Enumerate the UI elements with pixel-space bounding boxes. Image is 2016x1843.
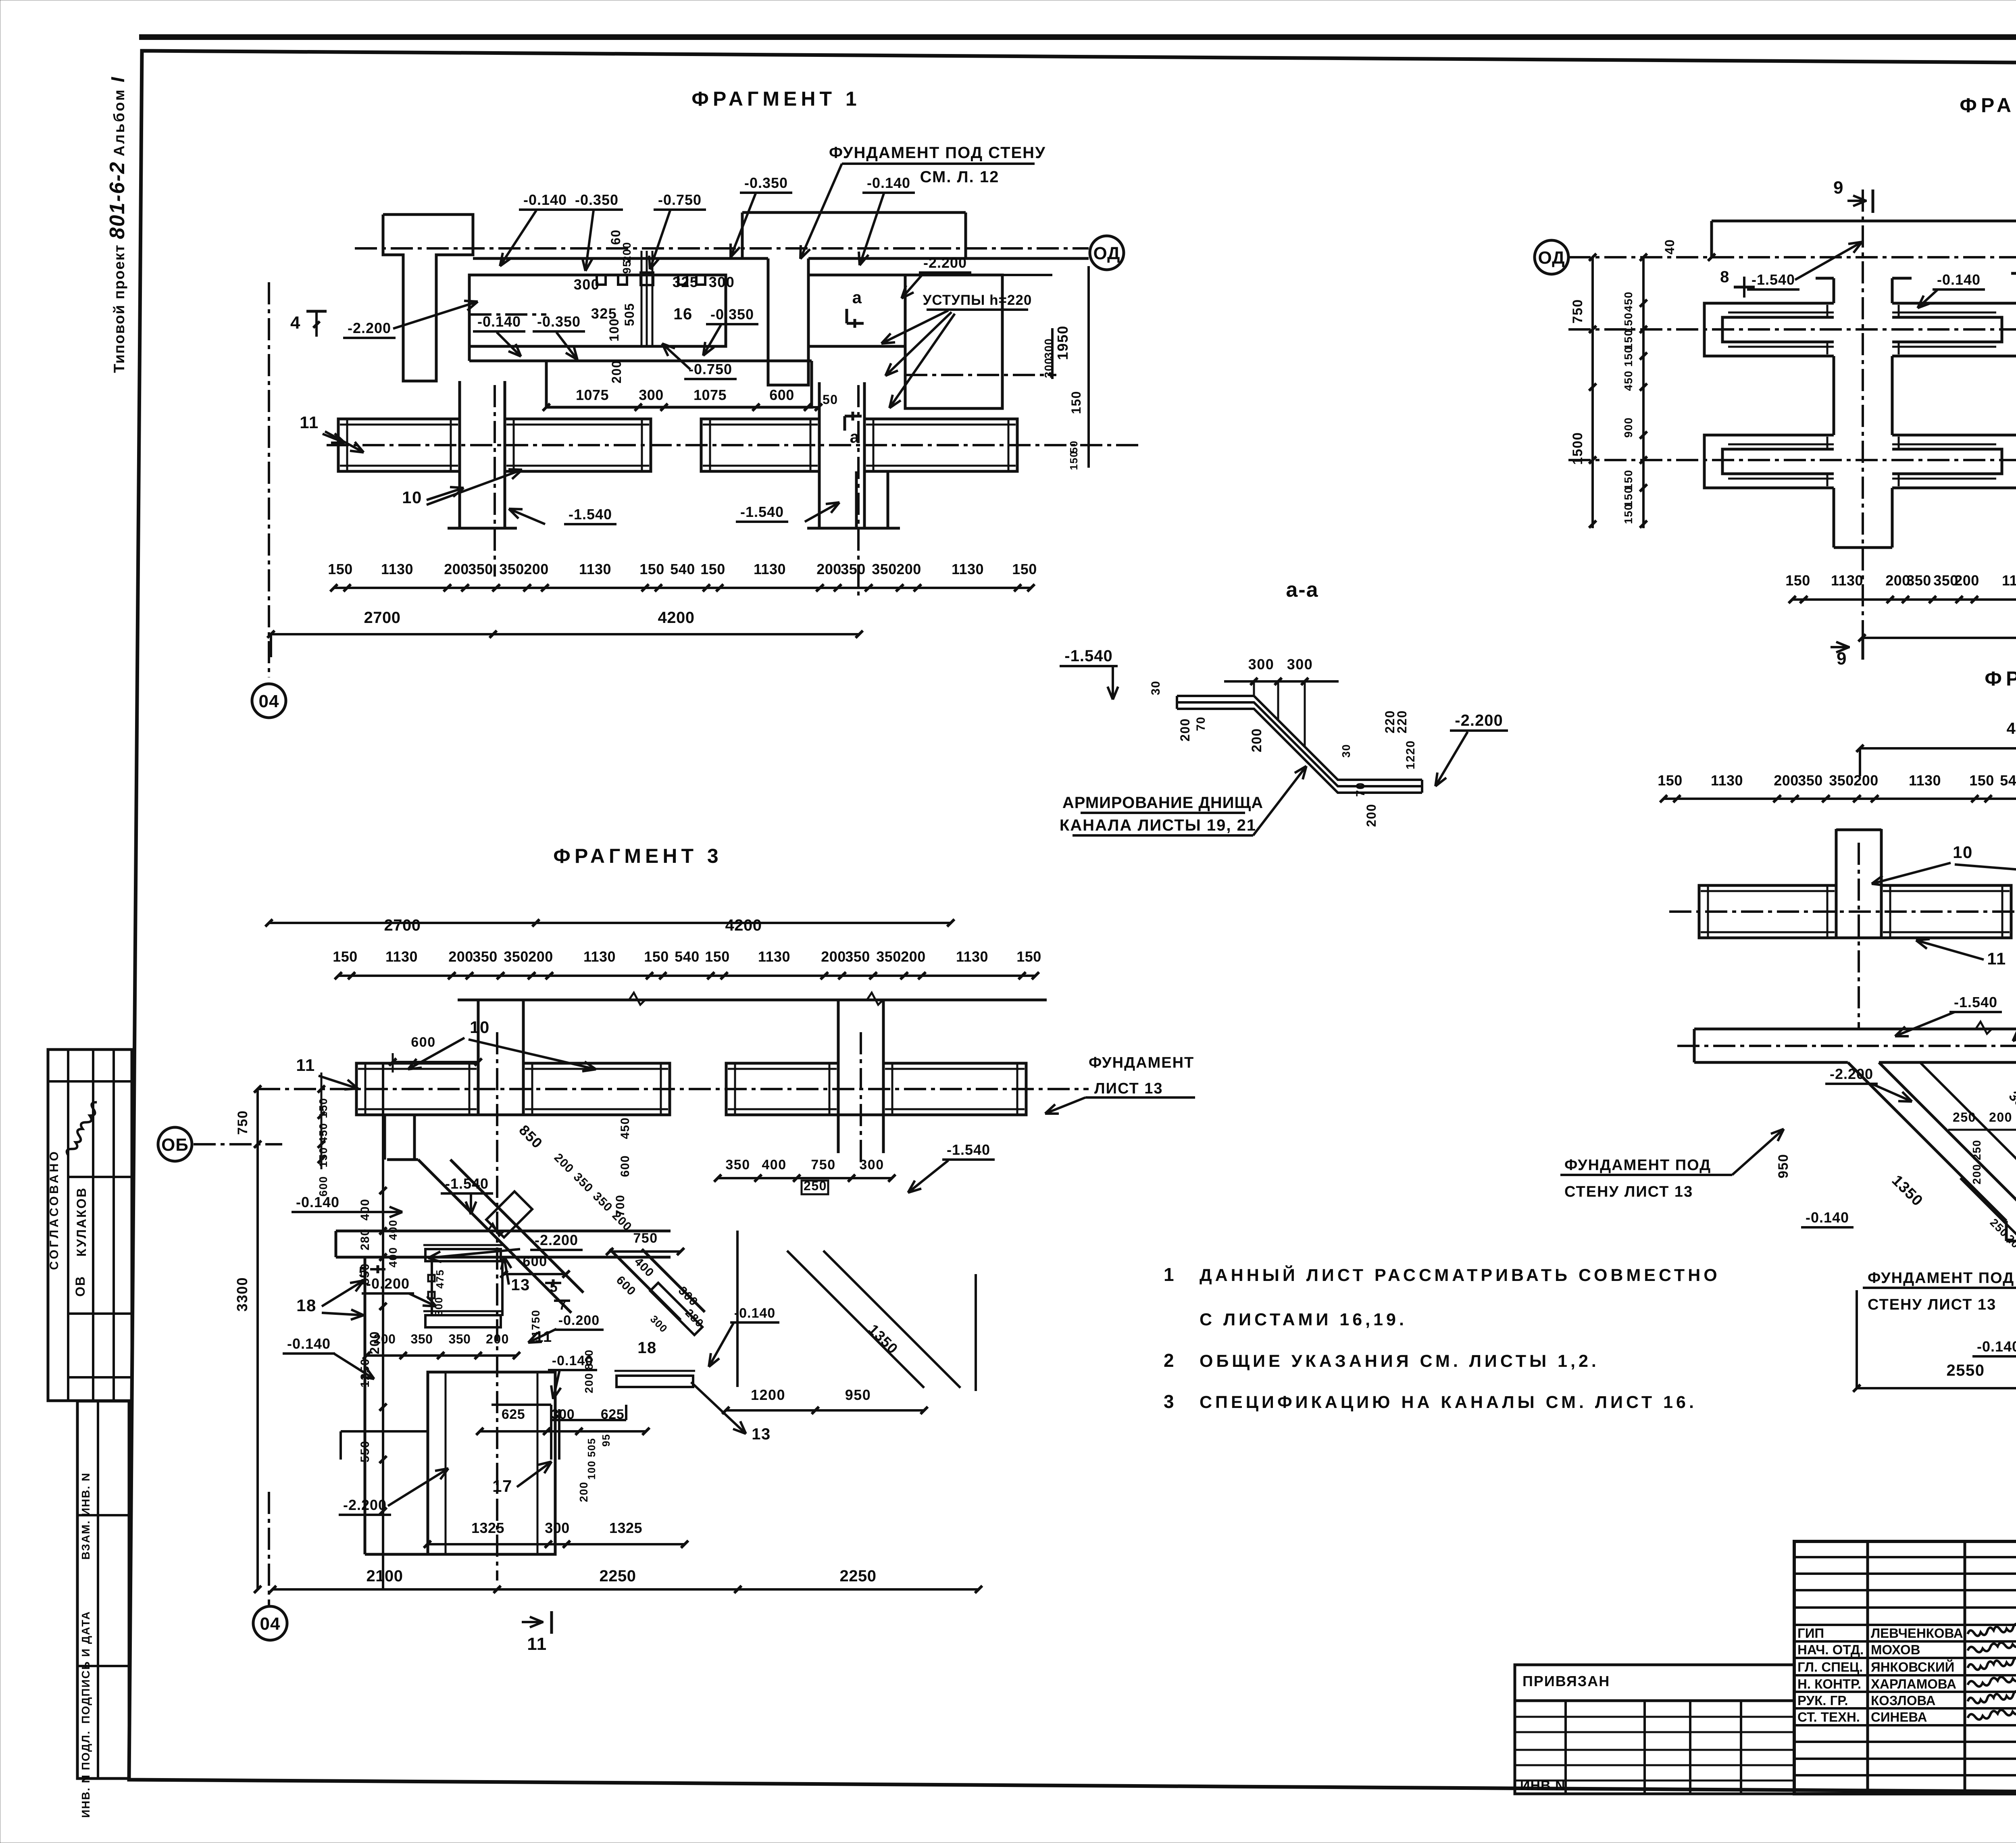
- svg-text:10: 10: [402, 488, 422, 507]
- svg-text:200: 200: [609, 360, 624, 383]
- svg-text:1200: 1200: [751, 1387, 785, 1403]
- svg-text:400: 400: [358, 1199, 372, 1221]
- svg-text:-0.140: -0.140: [1977, 1338, 2016, 1355]
- svg-text:КОЗЛОВА: КОЗЛОВА: [1871, 1693, 1936, 1708]
- svg-text:ОД: ОД: [1538, 248, 1565, 268]
- svg-text:95: 95: [621, 260, 633, 274]
- svg-text:СИНЕВА: СИНЕВА: [1871, 1710, 1927, 1724]
- svg-text:40: 40: [1662, 239, 1677, 255]
- svg-text:ЛЕВЧЕНКОВА: ЛЕВЧЕНКОВА: [1871, 1626, 1963, 1641]
- svg-text:150: 150: [1069, 391, 1083, 414]
- svg-text:300: 300: [1248, 656, 1275, 673]
- svg-text:350: 350: [876, 948, 901, 965]
- svg-text:ПОДПИСЬ И ДАТА: ПОДПИСЬ И ДАТА: [79, 1611, 92, 1724]
- svg-text:50: 50: [823, 392, 838, 407]
- svg-text:30: 30: [1340, 744, 1352, 758]
- svg-text:950: 950: [845, 1387, 871, 1403]
- svg-text:2100: 2100: [367, 1567, 403, 1585]
- svg-text:750: 750: [235, 1110, 250, 1135]
- svg-text:ОВ: ОВ: [73, 1276, 87, 1297]
- svg-text:200: 200: [486, 1332, 509, 1346]
- svg-text:3300: 3300: [234, 1277, 250, 1312]
- svg-text:1130: 1130: [952, 561, 984, 577]
- svg-text:АРМИРОВАНИЕ ДНИЩА: АРМИРОВАНИЕ ДНИЩА: [1062, 794, 1263, 812]
- svg-text:СТ. ТЕХН.: СТ. ТЕХН.: [1797, 1710, 1860, 1724]
- svg-text:-0.350: -0.350: [575, 192, 619, 208]
- svg-text:2250: 2250: [840, 1567, 877, 1585]
- svg-text:200: 200: [1970, 1164, 1983, 1184]
- svg-text:16: 16: [673, 305, 693, 323]
- svg-text:150: 150: [644, 948, 669, 965]
- svg-text:ОД: ОД: [1093, 244, 1120, 263]
- svg-text:10: 10: [1953, 843, 1973, 862]
- svg-text:13: 13: [511, 1276, 530, 1294]
- svg-text:1130: 1130: [2002, 572, 2016, 589]
- svg-text:СТЕНУ ЛИСТ 13: СТЕНУ ЛИСТ 13: [1564, 1183, 1693, 1200]
- svg-text:300: 300: [1042, 338, 1055, 358]
- svg-text:200: 200: [448, 948, 473, 965]
- svg-text:100: 100: [585, 1460, 598, 1480]
- svg-text:450: 450: [1622, 291, 1635, 312]
- svg-text:1130: 1130: [385, 948, 418, 965]
- svg-text:250: 250: [1953, 1110, 1976, 1125]
- svg-text:-0.200: -0.200: [558, 1313, 600, 1328]
- svg-text:ДАННЫЙ ЛИСТ РАССМАТРИВАТЬ СОВМ: ДАННЫЙ ЛИСТ РАССМАТРИВАТЬ СОВМЕСТНО: [1200, 1265, 1720, 1285]
- svg-text:200: 200: [524, 561, 549, 577]
- svg-text:150: 150: [1969, 772, 1994, 789]
- svg-text:МОХОВ: МОХОВ: [1871, 1642, 1920, 1657]
- svg-text:18: 18: [637, 1339, 657, 1357]
- svg-text:600: 600: [619, 1155, 632, 1177]
- svg-text:150: 150: [1012, 561, 1037, 577]
- svg-text:200: 200: [901, 948, 926, 965]
- svg-text:200: 200: [1178, 718, 1192, 741]
- svg-text:10: 10: [470, 1018, 490, 1037]
- svg-text:220: 220: [1395, 710, 1409, 733]
- svg-text:200: 200: [896, 561, 921, 577]
- svg-text:17: 17: [492, 1476, 512, 1495]
- svg-text:350: 350: [872, 561, 897, 577]
- svg-text:9: 9: [1833, 178, 1844, 198]
- svg-text:-0.140: -0.140: [296, 1194, 339, 1210]
- svg-text:11: 11: [527, 1634, 547, 1654]
- svg-text:13: 13: [752, 1425, 771, 1443]
- svg-text:4: 4: [290, 313, 301, 333]
- svg-text:8: 8: [1720, 268, 1730, 286]
- svg-text:1130: 1130: [758, 948, 790, 965]
- svg-text:600: 600: [411, 1035, 435, 1050]
- svg-text:ВЗАМ. ИНВ. N: ВЗАМ. ИНВ. N: [79, 1472, 92, 1560]
- svg-text:1130: 1130: [754, 561, 786, 577]
- svg-text:200: 200: [1249, 728, 1264, 752]
- svg-text:70: 70: [1194, 716, 1208, 731]
- svg-text:350: 350: [1798, 772, 1823, 789]
- svg-text:475: 475: [434, 1269, 446, 1289]
- svg-text:1130: 1130: [1711, 772, 1743, 789]
- svg-text:а: а: [852, 288, 862, 307]
- svg-text:350: 350: [468, 561, 493, 577]
- svg-text:-0.140: -0.140: [867, 175, 910, 191]
- svg-text:600: 600: [769, 387, 794, 403]
- svg-text:450: 450: [1622, 370, 1635, 391]
- svg-text:1075: 1075: [694, 387, 727, 403]
- svg-text:200: 200: [1774, 772, 1799, 789]
- svg-text:505: 505: [585, 1438, 598, 1457]
- svg-text:-0.140: -0.140: [734, 1306, 775, 1321]
- svg-text:600: 600: [317, 1176, 329, 1196]
- svg-text:ПРИВЯЗАН: ПРИВЯЗАН: [1522, 1673, 1610, 1689]
- svg-text:200: 200: [577, 1481, 590, 1502]
- svg-text:-2.200: -2.200: [535, 1232, 578, 1248]
- svg-text:70: 70: [1354, 782, 1367, 797]
- svg-text:250: 250: [1970, 1139, 1983, 1160]
- svg-text:30: 30: [1149, 681, 1162, 695]
- svg-text:200: 200: [821, 948, 846, 965]
- svg-text:-1.540: -1.540: [1752, 271, 1795, 288]
- svg-text:150: 150: [333, 948, 358, 965]
- svg-text:400: 400: [762, 1157, 786, 1172]
- svg-text:200: 200: [374, 1332, 396, 1346]
- svg-text:-0.350: -0.350: [744, 175, 788, 191]
- svg-text:-1.540: -1.540: [569, 506, 612, 523]
- svg-text:950: 950: [1776, 1154, 1791, 1178]
- svg-text:04: 04: [259, 691, 279, 711]
- svg-text:350: 350: [499, 561, 524, 577]
- svg-text:НАЧ. ОТД.: НАЧ. ОТД.: [1797, 1642, 1864, 1657]
- svg-text:350: 350: [1829, 772, 1854, 789]
- svg-text:-0.350: -0.350: [710, 306, 754, 323]
- svg-text:1950: 1950: [1054, 325, 1071, 360]
- svg-text:750: 750: [811, 1157, 835, 1172]
- svg-text:4200: 4200: [725, 916, 762, 934]
- svg-text:5: 5: [359, 1264, 368, 1281]
- svg-text:-0.140: -0.140: [477, 313, 521, 330]
- svg-text:3: 3: [1164, 1391, 1175, 1412]
- svg-text:325: 325: [673, 274, 699, 290]
- svg-text:-0.140: -0.140: [1806, 1209, 1849, 1226]
- svg-text:а-а: а-а: [1286, 578, 1318, 602]
- svg-text:300: 300: [859, 1157, 884, 1172]
- svg-text:ГЛ. СПЕЦ.: ГЛ. СПЕЦ.: [1797, 1660, 1863, 1674]
- svg-text:900: 900: [1622, 417, 1635, 437]
- svg-text:300: 300: [545, 1520, 570, 1536]
- svg-text:КАНАЛА ЛИСТЫ 19, 21: КАНАЛА ЛИСТЫ 19, 21: [1060, 816, 1256, 834]
- svg-text:200: 200: [1954, 572, 1979, 589]
- svg-text:2550: 2550: [1947, 1362, 1985, 1379]
- svg-text:ГИП: ГИП: [1797, 1626, 1824, 1641]
- svg-text:1130: 1130: [956, 948, 988, 965]
- svg-text:2700: 2700: [384, 916, 421, 934]
- svg-text:350: 350: [845, 948, 870, 965]
- svg-text:150: 150: [705, 948, 730, 965]
- svg-text:350: 350: [841, 561, 866, 577]
- svg-text:1325: 1325: [609, 1520, 642, 1536]
- svg-text:1220: 1220: [1404, 740, 1417, 770]
- svg-text:1130: 1130: [579, 561, 611, 577]
- svg-text:625: 625: [502, 1407, 525, 1422]
- svg-text:300: 300: [1287, 656, 1313, 673]
- svg-text:450: 450: [619, 1117, 632, 1139]
- svg-text:4200: 4200: [658, 609, 695, 627]
- svg-text:ЯНКОВСКИЙ: ЯНКОВСКИЙ: [1871, 1659, 1954, 1674]
- svg-text:300: 300: [709, 274, 735, 290]
- svg-text:800: 800: [583, 1349, 595, 1370]
- svg-text:11: 11: [1987, 949, 2006, 968]
- svg-text:300: 300: [574, 276, 600, 293]
- svg-text:350: 350: [449, 1332, 471, 1346]
- svg-text:ФРАГМЕНТ 1: ФРАГМЕНТ 1: [691, 87, 860, 110]
- svg-text:95: 95: [600, 1434, 612, 1447]
- svg-text:4200: 4200: [2007, 720, 2016, 737]
- svg-text:540: 540: [670, 561, 695, 577]
- svg-text:150: 150: [1068, 451, 1080, 470]
- svg-text:11: 11: [300, 413, 319, 432]
- svg-text:200: 200: [583, 1372, 595, 1393]
- svg-text:505: 505: [622, 303, 637, 326]
- svg-text:1130: 1130: [381, 561, 413, 577]
- svg-text:ФУНДАМЕНТ ПОД СТЕНУ: ФУНДАМЕНТ ПОД СТЕНУ: [829, 144, 1046, 162]
- svg-text:ИНВ N: ИНВ N: [1520, 1778, 1566, 1793]
- svg-text:300: 300: [639, 387, 664, 403]
- svg-text:КУЛАКОВ: КУЛАКОВ: [74, 1187, 89, 1256]
- svg-text:350: 350: [725, 1157, 750, 1172]
- svg-text:-0.350: -0.350: [537, 313, 581, 330]
- svg-text:Н. КОНТР.: Н. КОНТР.: [1797, 1676, 1861, 1691]
- svg-text:100: 100: [607, 318, 621, 342]
- svg-text:ОБЩИЕ УКАЗАНИЯ СМ. ЛИСТЫ 1,2.: ОБЩИЕ УКАЗАНИЯ СМ. ЛИСТЫ 1,2.: [1200, 1352, 1599, 1371]
- svg-text:2: 2: [1164, 1350, 1175, 1371]
- svg-text:150: 150: [1785, 572, 1810, 589]
- svg-text:С ЛИСТАМИ 16,19.: С ЛИСТАМИ 16,19.: [1200, 1310, 1407, 1329]
- svg-text:ФРАГМЕНТ 2: ФРАГМЕНТ 2: [1960, 94, 2016, 117]
- svg-text:-1.540: -1.540: [1954, 994, 1997, 1010]
- svg-text:350: 350: [504, 948, 529, 965]
- svg-text:04: 04: [260, 1614, 281, 1634]
- svg-text:150: 150: [639, 561, 664, 577]
- svg-text:ОБ: ОБ: [161, 1135, 189, 1155]
- svg-text:СМ. Л. 12: СМ. Л. 12: [920, 168, 1000, 186]
- svg-text:УСТУПЫ h=220: УСТУПЫ h=220: [923, 292, 1032, 308]
- svg-text:ФУНДАМЕНТ: ФУНДАМЕНТ: [1089, 1054, 1194, 1071]
- svg-text:1130: 1130: [1831, 572, 1863, 589]
- svg-text:150: 150: [1622, 503, 1635, 524]
- svg-text:ФРАГМЕНТ 3: ФРАГМЕНТ 3: [553, 845, 722, 867]
- svg-text:-0.200: -0.200: [366, 1275, 410, 1292]
- svg-text:ФУНДАМЕНТ ПОД: ФУНДАМЕНТ ПОД: [1868, 1270, 2014, 1287]
- svg-text:-1.540: -1.540: [1064, 647, 1112, 665]
- svg-text:1: 1: [1164, 1264, 1175, 1285]
- svg-text:ХАРЛАМОВА: ХАРЛАМОВА: [1871, 1676, 1956, 1691]
- svg-text:2250: 2250: [600, 1567, 636, 1585]
- svg-text:-1.540: -1.540: [740, 504, 784, 520]
- svg-text:1130: 1130: [583, 948, 616, 965]
- svg-text:-1.540: -1.540: [445, 1175, 489, 1192]
- svg-text:-0.140: -0.140: [523, 192, 567, 208]
- svg-text:600: 600: [523, 1254, 547, 1269]
- svg-text:200: 200: [621, 242, 633, 262]
- svg-text:11: 11: [296, 1056, 315, 1075]
- svg-text:ЛИСТ 13: ЛИСТ 13: [1094, 1080, 1163, 1097]
- svg-text:540: 540: [675, 948, 700, 965]
- svg-text:1075: 1075: [576, 387, 609, 403]
- svg-text:-0.140: -0.140: [1937, 271, 1981, 288]
- svg-text:СТЕНУ ЛИСТ 13: СТЕНУ ЛИСТ 13: [1868, 1296, 1996, 1313]
- svg-text:200: 200: [444, 561, 469, 577]
- svg-text:-0.140: -0.140: [287, 1335, 331, 1352]
- svg-text:-2.200: -2.200: [1455, 712, 1503, 729]
- svg-text:150: 150: [328, 561, 353, 577]
- svg-text:-2.200: -2.200: [343, 1497, 387, 1513]
- svg-text:150: 150: [700, 561, 725, 577]
- svg-text:750: 750: [1570, 299, 1585, 323]
- svg-text:300: 300: [551, 1407, 575, 1422]
- svg-text:СПЕЦИФИКАЦИЮ НА КАНАЛЫ СМ. ЛИС: СПЕЦИФИКАЦИЮ НА КАНАЛЫ СМ. ЛИСТ 16.: [1200, 1393, 1697, 1412]
- svg-text:1130: 1130: [1909, 772, 1941, 789]
- svg-text:200: 200: [816, 561, 841, 577]
- svg-text:200: 200: [528, 948, 553, 965]
- svg-text:625: 625: [601, 1407, 624, 1422]
- svg-text:150: 150: [1622, 346, 1635, 367]
- svg-text:150: 150: [1016, 948, 1041, 965]
- svg-text:750: 750: [633, 1231, 658, 1246]
- svg-text:350: 350: [473, 948, 498, 965]
- svg-text:200: 200: [1364, 804, 1379, 827]
- svg-text:-0.750: -0.750: [689, 361, 732, 377]
- svg-text:-0.750: -0.750: [658, 192, 702, 208]
- svg-text:-2.200: -2.200: [923, 254, 967, 271]
- svg-text:200: 200: [1989, 1110, 2012, 1125]
- svg-text:150: 150: [1658, 772, 1683, 789]
- svg-text:300: 300: [1042, 357, 1055, 378]
- svg-text:РУК. ГР.: РУК. ГР.: [1797, 1693, 1848, 1708]
- svg-text:1325: 1325: [471, 1520, 504, 1536]
- svg-text:11: 11: [535, 1329, 552, 1345]
- svg-text:2700: 2700: [364, 609, 401, 627]
- svg-text:18: 18: [296, 1296, 317, 1315]
- svg-text:-2.200: -2.200: [348, 320, 391, 336]
- svg-text:ФУНДАМЕНТ ПОД: ФУНДАМЕНТ ПОД: [1564, 1157, 1711, 1174]
- svg-text:ФРАГМЕНТ 4: ФРАГМЕНТ 4: [1985, 667, 2016, 690]
- svg-text:450: 450: [317, 1122, 329, 1143]
- svg-text:350: 350: [411, 1332, 433, 1346]
- svg-text:СОГЛАСОВАНО: СОГЛАСОВАНО: [48, 1149, 61, 1270]
- svg-text:-1.540: -1.540: [947, 1141, 990, 1158]
- svg-text:ИНВ. N ПОДЛ.: ИНВ. N ПОДЛ.: [79, 1730, 92, 1818]
- svg-text:540: 540: [2000, 772, 2016, 789]
- svg-text:350: 350: [1906, 572, 1931, 589]
- svg-text:200: 200: [1854, 772, 1879, 789]
